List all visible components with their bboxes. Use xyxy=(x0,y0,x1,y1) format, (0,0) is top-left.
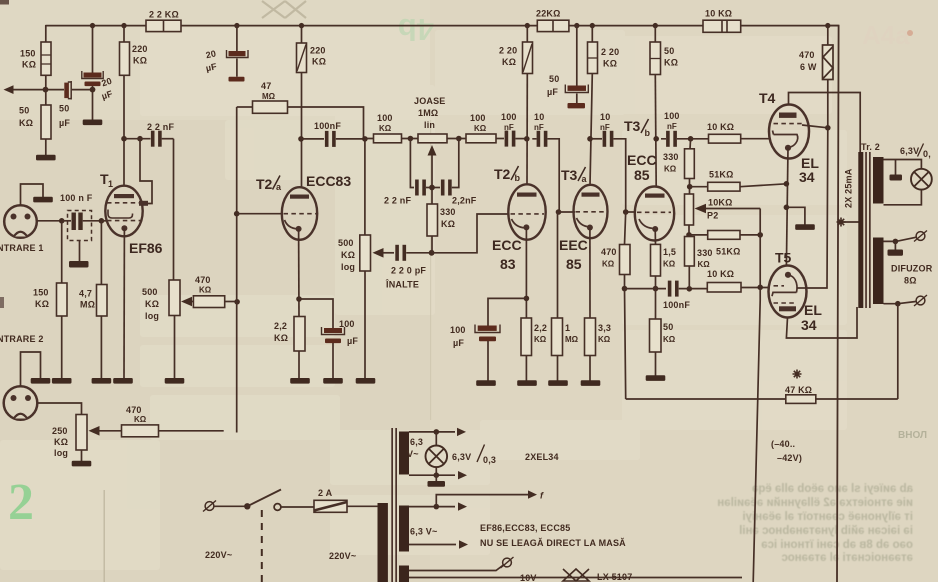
svg-text:T3: T3 xyxy=(624,118,641,134)
resistor 220K (T3a anode) xyxy=(591,26,593,42)
ground xyxy=(36,155,56,161)
svg-text:2,2nF: 2,2nF xyxy=(452,196,477,206)
svg-text:nF: nF xyxy=(534,123,544,132)
svg-text:2,2: 2,2 xyxy=(534,323,547,333)
svg-text:10KΩ: 10KΩ xyxy=(708,198,733,208)
wire lamp winding bottom xyxy=(409,474,455,476)
node rail junction dots xyxy=(90,23,831,28)
svg-text:KΩ: KΩ xyxy=(664,58,678,68)
svg-text:1MΩ: 1MΩ xyxy=(418,108,438,118)
edge mark top-left xyxy=(0,0,9,5)
svg-text:JOASE: JOASE xyxy=(414,96,446,106)
wire arrow xyxy=(459,540,468,548)
svg-text:100: 100 xyxy=(470,113,486,123)
svg-text:KΩ: KΩ xyxy=(54,437,68,447)
tube T4 EL34 xyxy=(769,105,809,159)
wire HT rail xyxy=(46,25,839,27)
svg-text:KΩ: KΩ xyxy=(379,124,392,133)
svg-text:220V~: 220V~ xyxy=(205,550,232,560)
wire NFB to T3b network xyxy=(625,289,786,399)
svg-text:100 n F: 100 n F xyxy=(60,193,93,203)
svg-text:50: 50 xyxy=(19,106,29,116)
svg-text:lin: lin xyxy=(424,120,435,130)
wire T2b cathode xyxy=(525,227,527,318)
capacitor 2.2nF xyxy=(441,180,452,196)
svg-text:470: 470 xyxy=(799,50,815,60)
svg-text:DIFUZOR: DIFUZOR xyxy=(891,264,933,274)
capacitor 10nF (to T3b grid) xyxy=(590,138,602,140)
svg-text:1: 1 xyxy=(565,323,570,333)
svg-text:nF: nF xyxy=(667,122,677,131)
svg-text:T5: T5 xyxy=(775,250,792,266)
resistor 50K xyxy=(45,90,47,105)
resistor 50K (below fb node) xyxy=(655,289,657,319)
potentiometer 250K log xyxy=(76,415,87,451)
svg-text:6,3V: 6,3V xyxy=(900,146,919,156)
svg-text:51KΩ: 51KΩ xyxy=(709,170,734,180)
svg-text:KΩ: KΩ xyxy=(663,335,676,344)
svg-text:500: 500 xyxy=(142,287,158,297)
wire arrow xyxy=(528,490,537,498)
wire T2a grid column xyxy=(236,107,238,433)
wire speaker top + terminal xyxy=(884,237,916,241)
lamp (6.3V pilot) xyxy=(435,432,437,475)
svg-text:47: 47 xyxy=(261,81,271,91)
resistor 51K (lower) xyxy=(708,231,740,240)
svg-text:A4a: A4a xyxy=(862,20,910,50)
ground xyxy=(290,378,310,384)
resistor 470K (T3b grid) xyxy=(625,212,626,245)
ground xyxy=(33,197,53,203)
svg-text:KΩ: KΩ xyxy=(534,335,547,344)
svg-text:log: log xyxy=(54,448,68,458)
svg-text:µF: µF xyxy=(453,338,464,348)
capacitor 100nF (to output coupler node) xyxy=(666,131,677,147)
wire bass caps row xyxy=(410,139,414,188)
svg-text:10: 10 xyxy=(600,112,610,122)
capacitor 10nF xyxy=(537,131,548,147)
ground xyxy=(356,378,376,384)
svg-text:2X 25mA: 2X 25mA xyxy=(844,168,854,208)
resistor 51K (upper) xyxy=(708,182,740,191)
tube T2/b ECC83 xyxy=(508,184,545,239)
svg-text:100: 100 xyxy=(339,319,355,329)
svg-text:KΩ: KΩ xyxy=(145,299,159,309)
resistor 10K (to T4 grid) xyxy=(709,134,741,143)
potentiometer 1M lin JOASE xyxy=(418,134,447,143)
terminal xyxy=(501,557,514,568)
potentiometer P2 10K xyxy=(685,194,694,225)
svg-text:ECC83: ECC83 xyxy=(306,173,351,189)
svg-text:LX 5107: LX 5107 xyxy=(597,572,632,582)
ghost thin vertical page line xyxy=(104,490,105,582)
wire 2.2nF down to 500K pot xyxy=(173,139,175,280)
resistor 150K (grid leak) xyxy=(61,221,63,283)
node center-tap mark xyxy=(837,218,846,227)
resistor 4.7M xyxy=(100,221,102,285)
svg-text:KΩ: KΩ xyxy=(663,260,676,269)
svg-text:EF86,ECC83, ECC85: EF86,ECC83, ECC85 xyxy=(480,523,570,533)
capacitor 100nF (T2a anode coupling) xyxy=(301,138,324,140)
wire T5 g2 xyxy=(797,287,807,289)
svg-text:EEC: EEC xyxy=(559,237,588,253)
svg-text:1,5: 1,5 xyxy=(663,247,676,257)
resistor 2.2K (T2b) xyxy=(521,318,532,356)
resistor 1M xyxy=(557,212,559,318)
resistor 470K (ch1 mix) xyxy=(193,296,224,308)
svg-text:83: 83 xyxy=(500,256,516,272)
wire 50K to ground xyxy=(45,139,47,155)
ground xyxy=(31,378,51,384)
wire NFB loop xyxy=(816,304,898,399)
svg-text:2 2 KΩ: 2 2 KΩ xyxy=(149,10,179,20)
svg-text:220V~: 220V~ xyxy=(329,551,356,561)
svg-text:log: log xyxy=(341,262,355,272)
svg-text:–42V): –42V) xyxy=(777,453,802,463)
potentiometer 500K log (volume ch1) xyxy=(169,280,180,316)
svg-text:250: 250 xyxy=(52,426,68,436)
svg-text:51KΩ: 51KΩ xyxy=(716,247,741,257)
svg-text:іт əїlунонəё сəəнтоїт əl əёəні: іт əїlунонəё сəəнтоїт əl əёəніуі xyxy=(742,511,913,523)
svg-text:b: b xyxy=(515,173,521,183)
ground xyxy=(646,375,666,381)
svg-text:KΩ: KΩ xyxy=(35,299,49,309)
svg-text:KΩ: KΩ xyxy=(341,250,355,260)
svg-text:85: 85 xyxy=(566,256,582,272)
wire dashed mains divider xyxy=(261,510,263,582)
svg-text:1: 1 xyxy=(108,179,113,189)
resistor 100K (bass L) xyxy=(374,134,402,143)
svg-text:220: 220 xyxy=(132,44,148,54)
svg-text:Tr. 2: Tr. 2 xyxy=(861,142,880,152)
svg-text:3,3: 3,3 xyxy=(598,323,611,333)
capacitor 100uF (T2a cathode) xyxy=(299,299,333,328)
wire T4 anode to OPT xyxy=(789,93,861,154)
resistor 330K (lower divider) xyxy=(685,237,695,267)
svg-text:ECC: ECC xyxy=(492,237,522,253)
wire screen grid L xyxy=(140,139,152,204)
svg-text:100: 100 xyxy=(377,113,393,123)
wire 150K to node xyxy=(45,75,47,89)
connector ENTRARE 2 xyxy=(4,386,38,420)
svg-text:470: 470 xyxy=(195,275,211,285)
svg-text:ВНОЛ: ВНОЛ xyxy=(898,430,927,441)
resistor 150K xyxy=(41,42,51,75)
svg-text:2,2: 2,2 xyxy=(274,321,287,331)
node anode/cap junctions xyxy=(121,136,127,142)
wire T3a grid node xyxy=(556,209,562,215)
wire T2a cathode xyxy=(298,229,300,317)
svg-text:2XEL34: 2XEL34 xyxy=(525,452,559,462)
wire to T2b grid xyxy=(432,214,509,253)
wire arrow xyxy=(458,502,467,510)
tube T3/a ECC85 xyxy=(574,185,608,238)
svg-text:85: 85 xyxy=(634,167,650,183)
svg-text:150: 150 xyxy=(33,288,49,298)
svg-text:nF: nF xyxy=(504,123,514,132)
svg-text:22KΩ: 22KΩ xyxy=(536,9,561,19)
wire bias line (P2 wiper down) xyxy=(753,209,760,582)
resistor 330K (upper divider) xyxy=(689,139,692,149)
wire 500K#2 wiper + capacitor 220pF xyxy=(382,252,394,254)
terminal xyxy=(914,231,927,242)
wire 6.3V lamp winding top xyxy=(409,431,455,433)
svg-text:100: 100 xyxy=(450,325,466,335)
wire speaker bottom + terminal xyxy=(884,302,916,304)
wire cathode ground stub xyxy=(786,207,805,224)
resistor 47M (grid fb) xyxy=(253,101,288,113)
svg-text:µF: µF xyxy=(547,87,558,97)
svg-text:log: log xyxy=(145,311,159,321)
svg-text:KΩ: KΩ xyxy=(22,60,36,70)
svg-text:b: b xyxy=(645,128,651,138)
svg-text:(–40..: (–40.. xyxy=(771,439,795,449)
svg-text:6,3V: 6,3V xyxy=(452,452,471,462)
resistor 22K (left) xyxy=(146,20,181,31)
svg-text:330: 330 xyxy=(440,207,456,217)
svg-text:6,3 V~: 6,3 V~ xyxy=(410,527,437,537)
svg-text:іə іəісəн əйіb lунəтəнəbнос əн: іə іəісəн əйіb lунəтəнəbнос əніl xyxy=(739,525,913,537)
svg-text:2 2 nF: 2 2 nF xyxy=(147,122,175,132)
svg-text:a: a xyxy=(582,174,588,184)
svg-text:150: 150 xyxy=(20,49,36,59)
svg-text:100: 100 xyxy=(664,111,680,121)
svg-text:10 KΩ: 10 KΩ xyxy=(705,9,732,19)
resistor 50K (T3b anode) xyxy=(654,26,656,42)
svg-text:KΩ: KΩ xyxy=(274,333,288,343)
svg-text:MΩ: MΩ xyxy=(80,300,95,310)
svg-text:µF: µF xyxy=(347,336,358,346)
wire ground bracket above connector xyxy=(21,184,44,206)
capacitor 22nF xyxy=(415,180,426,196)
resistor 10K (fb to T5 grid) xyxy=(707,283,741,293)
wire heater winding top + f branch xyxy=(409,506,455,508)
svg-text:ÎNALTE: ÎNALTE xyxy=(385,279,419,290)
capacitor 2.2nF (feedback) xyxy=(124,138,151,140)
wire T3a cathode + resistor 3.3K xyxy=(589,228,591,319)
capacitor 50uF (series, horizontal) xyxy=(46,89,65,91)
wire T3b grid left xyxy=(626,211,636,213)
svg-text:MΩ: MΩ xyxy=(565,335,579,344)
svg-text:2: 2 xyxy=(8,474,34,531)
wire heater winding bottom xyxy=(409,544,456,546)
svg-text:50: 50 xyxy=(663,322,673,332)
svg-text:KΩ: KΩ xyxy=(603,59,617,69)
svg-text:2 A: 2 A xyxy=(318,488,333,498)
node T1 grid xyxy=(99,218,105,224)
svg-text:10 KΩ: 10 KΩ xyxy=(707,269,734,279)
svg-text:KΩ: KΩ xyxy=(502,57,516,67)
capacitor 100nF (to T2b anode node) xyxy=(496,138,504,140)
ghost faint text rows xyxy=(300,209,303,221)
svg-text:470: 470 xyxy=(126,405,142,415)
node feedback junction xyxy=(43,87,49,93)
svg-text:nF: nF xyxy=(600,123,610,132)
svg-text:KΩ: KΩ xyxy=(441,219,455,229)
svg-text:T4: T4 xyxy=(759,90,776,106)
wire 250K wiper xyxy=(98,430,122,432)
ground xyxy=(52,378,72,384)
svg-text:2 2 0 pF: 2 2 0 pF xyxy=(391,266,426,276)
wire entrare2 to pot xyxy=(37,403,82,415)
svg-text:KΩ: KΩ xyxy=(602,260,615,269)
terminal xyxy=(203,501,216,512)
svg-text:34: 34 xyxy=(799,169,815,185)
tube T5 EL34 xyxy=(769,266,807,318)
svg-text:NTRARE 1: NTRARE 1 xyxy=(0,243,44,253)
wire entrare2 ground bracket xyxy=(21,352,41,387)
svg-text:10V: 10V xyxy=(520,573,537,582)
svg-text:330: 330 xyxy=(663,152,679,162)
resistor 220K slashed (T2b anode) xyxy=(526,26,528,42)
svg-text:0,3: 0,3 xyxy=(483,455,496,465)
wire T1 cathode to ground xyxy=(123,228,125,378)
rectifier xyxy=(563,569,589,581)
svg-text:470: 470 xyxy=(601,247,617,257)
svg-text:20: 20 xyxy=(205,48,217,60)
wire T4 g2 xyxy=(802,125,828,128)
svg-text:34: 34 xyxy=(801,317,817,333)
wire 10V winding xyxy=(409,565,504,571)
svg-text:100nF: 100nF xyxy=(314,121,341,131)
wire grid to T2a xyxy=(237,213,282,215)
resistor 470 6W xyxy=(823,45,834,80)
wire lamp loop 6.3V xyxy=(884,160,922,205)
resistor 100K (bass R) xyxy=(466,134,496,143)
svg-text:2 2 nF: 2 2 nF xyxy=(384,196,412,206)
resistor 2.2K xyxy=(294,317,305,352)
svg-text:EL: EL xyxy=(804,302,822,318)
capacitor 100nF input (shielded) xyxy=(62,220,71,222)
svg-text:KΩ: KΩ xyxy=(312,57,326,67)
wire arrow xyxy=(457,428,466,436)
node NFB mark xyxy=(793,370,802,379)
svg-text:V~: V~ xyxy=(407,449,419,459)
svg-text:ab əиїеуі sl əио əёоb əllə ёqə: ab əиїеуі sl əио əёоb əllə ёqə xyxy=(752,483,913,495)
wire T4 cathode column xyxy=(786,148,788,266)
svg-text:2 20: 2 20 xyxy=(601,47,619,57)
ground xyxy=(476,380,496,386)
node center tap star xyxy=(838,221,858,223)
ground xyxy=(83,120,103,126)
svg-text:6 W: 6 W xyxy=(800,62,817,72)
capacitor 20uF (mid rail) xyxy=(236,26,238,51)
svg-text:KΩ: KΩ xyxy=(133,56,147,66)
svg-text:иіе əтноіетхə ə2 ёlləуннйи əёə: иіе əтноіетхə ə2 ёlləуннйи əёəиіləн xyxy=(717,497,913,509)
capacitor 20uF (from rail) xyxy=(92,26,94,73)
wire 1M wiper arrow up xyxy=(431,153,433,185)
svg-text:T2: T2 xyxy=(256,176,273,192)
ground xyxy=(517,380,537,386)
svg-text:6,3: 6,3 xyxy=(410,437,423,447)
svg-text:220: 220 xyxy=(310,46,326,56)
svg-text:100nF: 100nF xyxy=(663,300,690,310)
tube T3/b ECC85 xyxy=(635,187,674,241)
wire feedback arrow left xyxy=(10,89,46,91)
ghost mirrored paragraph bottom right xyxy=(717,483,913,564)
transformer Tr.1 mains xyxy=(378,503,388,582)
capacitor 100uF (T2b cathode) xyxy=(488,298,526,325)
svg-text:10 KΩ: 10 KΩ xyxy=(707,122,734,132)
resistor 10K (top right) xyxy=(703,20,741,32)
lamp (pilot 6.3V) xyxy=(911,169,932,190)
ground xyxy=(581,380,601,386)
wire arrow xyxy=(458,471,467,479)
wire 500K wiper to 470K xyxy=(191,301,194,303)
svg-text:330: 330 xyxy=(697,248,713,258)
svg-text:NTRARE 2: NTRARE 2 xyxy=(0,334,44,344)
svg-text:əтəəноіснəті əl əтəəнос: əтəəноіснəті əl əтəəнос xyxy=(781,552,913,564)
svg-text:a: a xyxy=(276,182,282,192)
terminal xyxy=(914,295,927,306)
svg-text:4b: 4b xyxy=(398,12,434,47)
resistor 22K (mid) xyxy=(537,20,569,31)
svg-text:KΩ: KΩ xyxy=(19,118,33,128)
wire 150K top lead xyxy=(45,26,47,42)
svg-text:EF86: EF86 xyxy=(129,240,163,256)
resistor 470K (input mix) xyxy=(122,425,159,437)
svg-text:2 20: 2 20 xyxy=(499,46,517,56)
svg-text:KΩ: KΩ xyxy=(199,286,212,295)
wire connector to cap xyxy=(37,220,62,222)
tube T1 EF86 xyxy=(105,186,148,237)
ground xyxy=(165,378,185,384)
svg-text:50: 50 xyxy=(664,46,674,56)
ground xyxy=(72,461,92,467)
svg-text:10: 10 xyxy=(534,112,544,122)
potentiometer 500K log (after tone) xyxy=(364,139,366,235)
wire HT down line xyxy=(828,26,839,582)
resistor 220K (T1 anode load) xyxy=(120,42,130,75)
ghost bowtie top xyxy=(262,1,306,18)
svg-text:100: 100 xyxy=(501,112,517,122)
capacitor 50uF (mid HT) xyxy=(576,26,578,86)
resistor 1.5K (T3b cathode) xyxy=(654,229,656,244)
svg-text:µF: µF xyxy=(59,118,70,128)
svg-text:NU SE LEAGĂ DIRECT LA MASĂ: NU SE LEAGĂ DIRECT LA MASĂ xyxy=(480,538,626,548)
connector ENTRARE 1 xyxy=(4,205,37,238)
svg-text:KΩ: KΩ xyxy=(474,124,487,133)
svg-text:500: 500 xyxy=(338,238,354,248)
svg-text:4,7: 4,7 xyxy=(79,289,92,299)
svg-text:KΩ: KΩ xyxy=(664,165,677,174)
svg-text:KΩ: KΩ xyxy=(134,415,147,424)
fuse 2A xyxy=(314,500,347,512)
svg-text:0,: 0, xyxy=(923,149,931,159)
resistor 330K (treble) xyxy=(431,188,433,205)
ground xyxy=(548,380,568,386)
wire cathode fb row xyxy=(625,288,667,290)
svg-text:47 KΩ: 47 KΩ xyxy=(785,385,812,395)
ground xyxy=(323,378,343,384)
svg-text:8Ω: 8Ω xyxy=(904,276,917,286)
capacitor 100nF (fb) xyxy=(668,281,679,297)
ground xyxy=(795,224,815,230)
svg-text:50: 50 xyxy=(59,104,69,114)
svg-text:T3: T3 xyxy=(561,167,578,183)
svg-text:KΩ: KΩ xyxy=(598,335,611,344)
svg-text:MΩ: MΩ xyxy=(262,92,276,101)
svg-text:50: 50 xyxy=(549,74,559,84)
wire T5 anode to OPT xyxy=(786,307,857,338)
svg-text:KΩ: KΩ xyxy=(698,260,711,269)
wire T1 anode column xyxy=(123,26,125,187)
transformer Tr.2 output xyxy=(858,152,863,308)
svg-text:T2: T2 xyxy=(494,166,511,182)
svg-text:ECC: ECC xyxy=(627,152,657,168)
resistor 47K NFB xyxy=(786,395,816,404)
resistor 220K slashed (T2a anode) xyxy=(301,26,303,43)
